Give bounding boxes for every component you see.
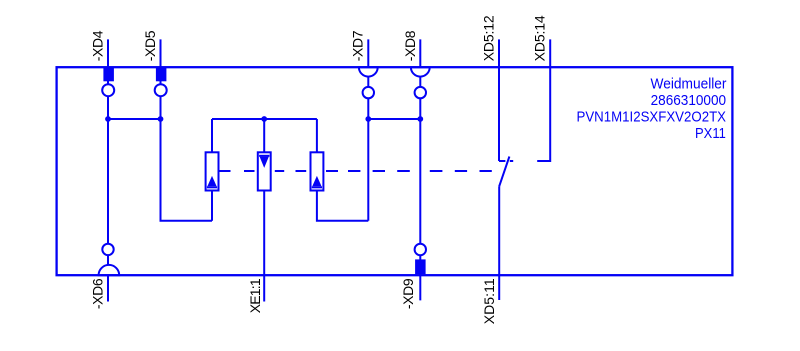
varistor G2 triangle	[260, 157, 269, 168]
junction node XD7/bus	[365, 116, 371, 122]
svg-text:-XD9: -XD9	[400, 278, 416, 309]
varistor G2 body	[258, 152, 271, 190]
svg-text:PVN1M1I2SXFXV2O2TX: PVN1M1I2SXFXV2O2TX	[577, 108, 727, 125]
svg-text:XD5:11: XD5:11	[481, 278, 497, 324]
device boundary box	[57, 67, 733, 275]
wire XD5:11 column (blade common to terminal)	[498, 186, 500, 300]
svg-text:XE1:1: XE1:1	[247, 278, 263, 313]
junction node G2/bus	[261, 116, 267, 122]
wire XD5:12 column	[498, 39, 500, 161]
svg-text:-XD5: -XD5	[142, 30, 158, 61]
wire bus XD7 to XD8	[368, 118, 420, 120]
varistor G3 triangle	[312, 176, 321, 186]
socket arc terminal -XD7	[359, 67, 378, 76]
socket arc terminal -XD6	[99, 265, 120, 275]
wire varistor G3 riser top	[316, 119, 318, 152]
terminal circle -XD7	[363, 87, 374, 98]
svg-text:Weidmueller: Weidmueller	[651, 76, 727, 93]
varistor G3 bar	[312, 186, 322, 188]
svg-text:2866310000: 2866310000	[651, 92, 727, 109]
svg-text:-XD8: -XD8	[402, 30, 418, 61]
svg-text:-XD6: -XD6	[90, 278, 106, 309]
wire varistor G1 riser top	[211, 119, 213, 152]
svg-text:-XD7: -XD7	[350, 30, 366, 61]
wire varistor G1 riser bottom	[211, 191, 213, 221]
varistor G1 body	[206, 152, 219, 190]
terminal square -XD9	[415, 259, 426, 274]
terminal circle -XD8	[415, 87, 426, 98]
wire bus G1 to G3	[212, 118, 317, 120]
wire varistor G3 riser bottom	[317, 191, 368, 221]
svg-text:PX11: PX11	[695, 125, 726, 142]
wire XD4 column (terminal -XD4 top to -XD6 bottom)	[107, 39, 109, 301]
wire XD5:14 column	[537, 39, 550, 161]
terminal circle -XD4	[102, 84, 114, 96]
terminal circle -XD6	[102, 244, 113, 255]
varistor G1 triangle	[207, 176, 216, 186]
varistor G3 body	[311, 152, 324, 190]
socket arc terminal -XD8	[411, 67, 430, 76]
wire XE1:1 column (G2 bottom to terminal)	[263, 191, 265, 302]
contact blade K1	[499, 157, 509, 187]
svg-text:XD5:12: XD5:12	[481, 15, 497, 61]
terminal circle -XD5	[155, 84, 167, 96]
wire XD8 column (terminal -XD8 top to -XD9 bottom)	[419, 39, 421, 300]
wire varistor G2 riser top	[263, 119, 265, 152]
junction node XD4/bus	[105, 116, 111, 122]
wire bus XD4 to XD5	[108, 118, 161, 120]
terminal circle -XD9	[415, 244, 426, 255]
terminal square -XD5	[156, 68, 167, 82]
terminal square -XD4	[103, 68, 114, 82]
wire XD7 column	[367, 39, 369, 220]
varistor G1 bar	[207, 186, 217, 188]
dashed linkage line	[219, 170, 492, 172]
svg-text:-XD4: -XD4	[90, 30, 106, 61]
junction node XD5/bus	[158, 116, 164, 122]
wire XD5 column vertical	[161, 39, 213, 220]
svg-text:XD5:14: XD5:14	[532, 15, 548, 61]
varistor G2 bar	[259, 155, 269, 157]
junction node XD8/bus	[417, 116, 423, 122]
contact fixed hook XD5:12	[499, 160, 505, 162]
